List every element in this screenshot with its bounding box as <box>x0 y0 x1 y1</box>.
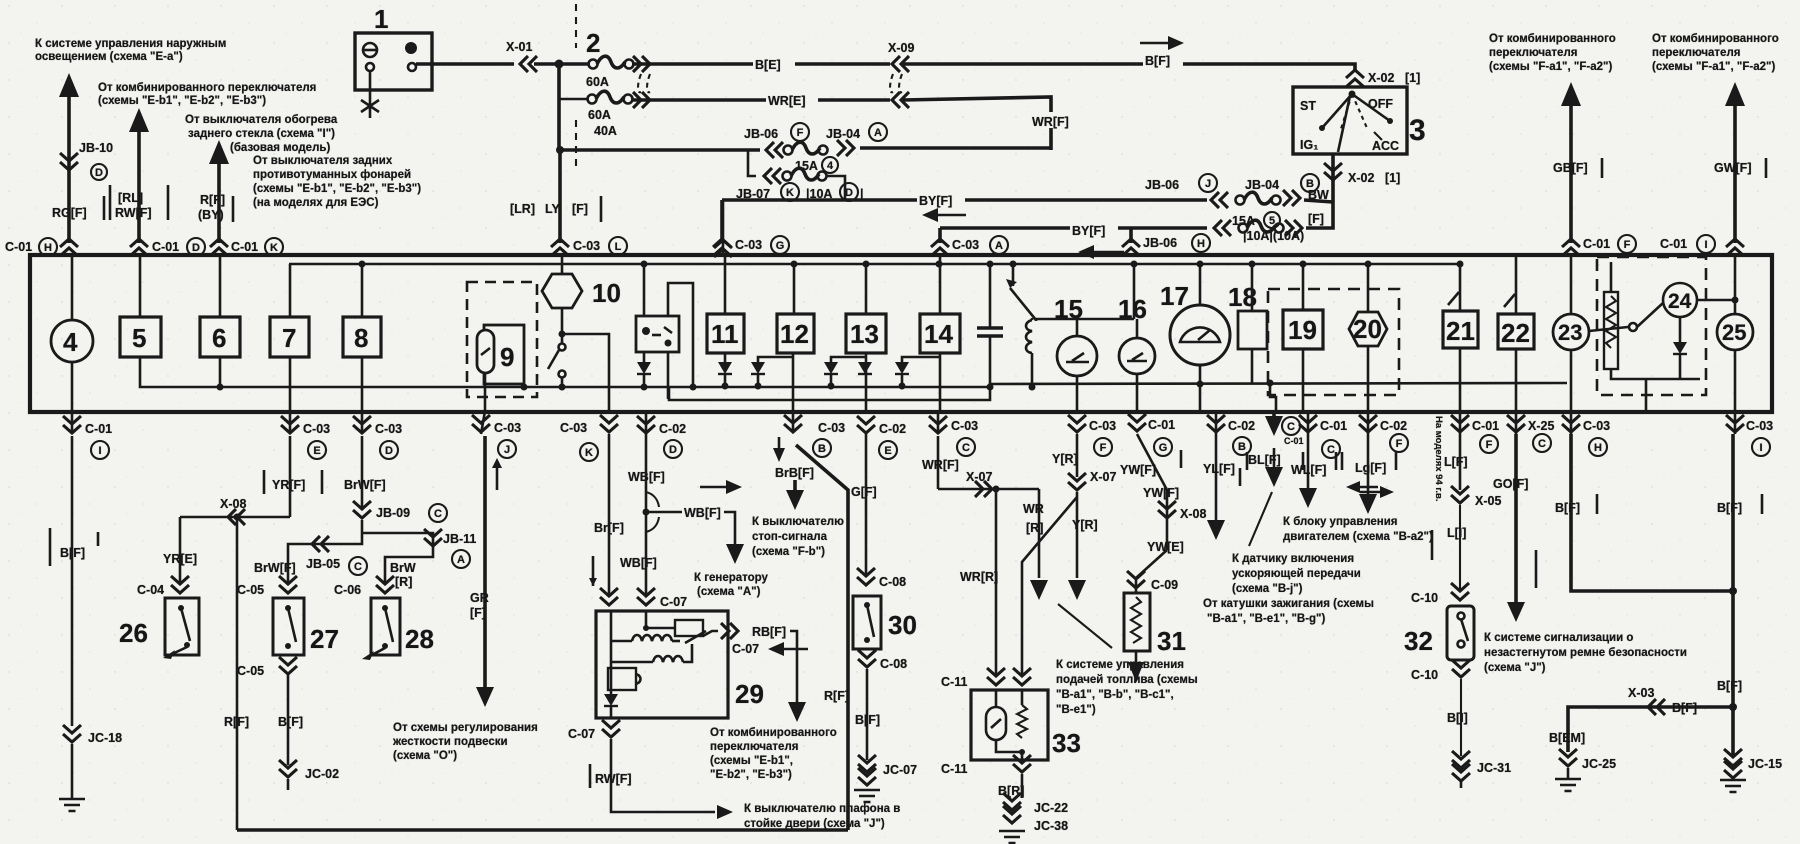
svg-text:C-01: C-01 <box>152 240 179 254</box>
svg-text:10: 10 <box>592 278 621 308</box>
svg-text:I: I <box>1704 239 1707 251</box>
svg-text:К системе управления наружным: К системе управления наружным <box>35 38 226 50</box>
svg-text:X-03: X-03 <box>1628 686 1654 700</box>
svg-text:G: G <box>1159 442 1168 454</box>
ground JC-15 <box>1720 780 1746 792</box>
diagnostic unit 10 hexagon <box>561 257 564 274</box>
lamp 25 <box>1734 257 1737 314</box>
wire drop to C-03 A <box>938 228 942 243</box>
svg-text:JC-02: JC-02 <box>305 767 339 781</box>
svg-text:От комбинированного: От комбинированного <box>1652 33 1779 45</box>
svg-text:C-10: C-10 <box>1411 591 1438 605</box>
svg-text:40A: 40A <box>594 124 617 138</box>
svg-text:JB-09: JB-09 <box>376 506 410 520</box>
svg-text:К датчику включения: К датчику включения <box>1232 553 1354 565</box>
svg-text:X-08: X-08 <box>220 497 246 511</box>
svg-text:C-05: C-05 <box>237 664 264 678</box>
svg-text:От комбинированного переключат: От комбинированного переключателя <box>98 82 316 94</box>
svg-text:BrW[F]: BrW[F] <box>344 478 386 492</box>
svg-text:C: C <box>1287 421 1295 433</box>
connector C-07 bottom of 29 <box>602 720 620 737</box>
svg-text:C: C <box>962 442 970 454</box>
inner top bus <box>289 263 1460 266</box>
svg-text:K: K <box>270 242 278 254</box>
svg-text:RW[F]: RW[F] <box>595 772 632 786</box>
wire R[F] diagonal <box>796 445 848 830</box>
wire WR[E] <box>631 98 890 102</box>
unit 22 <box>1515 257 1518 314</box>
connector JC-15 <box>1724 749 1742 766</box>
svg-text:WR[F]: WR[F] <box>922 458 959 472</box>
svg-text:BW: BW <box>1308 188 1329 202</box>
wire BrW[F] <box>361 436 364 509</box>
wire BW[F] ignition feed <box>1331 155 1335 202</box>
page fold dashes <box>575 4 577 166</box>
wire WR[R] arrow to fuel system <box>1038 489 1041 578</box>
svg-text:[LR]: [LR] <box>510 202 535 216</box>
svg-text:C-11: C-11 <box>941 762 967 776</box>
svg-text:JB-06: JB-06 <box>1143 236 1177 250</box>
frame box <box>30 255 1772 412</box>
connector C-05 top <box>279 576 297 593</box>
svg-text:B[F]: B[F] <box>1672 701 1697 715</box>
svg-text:От катушки зажигания (схемы: От катушки зажигания (схемы <box>1203 598 1374 610</box>
svg-text:C-01: C-01 <box>1320 419 1347 433</box>
unit 5 <box>139 257 142 317</box>
svg-text:C-07: C-07 <box>660 595 687 609</box>
connector C-01 C bottom <box>1307 411 1310 434</box>
svg-text:31: 31 <box>1157 626 1186 656</box>
svg-text:[R]: [R] <box>395 575 412 589</box>
svg-text:JB-04: JB-04 <box>826 127 860 141</box>
wire YW[F] slant <box>1137 434 1167 550</box>
second lower bus <box>669 387 990 400</box>
svg-text:переключателя: переключателя <box>1652 47 1740 59</box>
svg-text:30: 30 <box>888 610 917 640</box>
lamp 23 <box>1570 257 1573 314</box>
svg-text:C-02: C-02 <box>659 422 686 436</box>
svg-text:D: D <box>669 444 677 456</box>
svg-text:E: E <box>884 445 891 457</box>
svg-text:6: 6 <box>212 323 226 353</box>
svg-text:WR[E]: WR[E] <box>768 94 806 108</box>
relay unit 29 <box>596 611 728 718</box>
connector C-01 F at frame top <box>1562 239 1580 256</box>
svg-text:"B-a1", "B-e1", "B-g"): "B-a1", "B-e1", "B-g") <box>1207 613 1326 625</box>
node battery feed junction <box>555 60 564 69</box>
svg-text:B[F]: B[F] <box>278 715 303 729</box>
svg-text:C-01: C-01 <box>1148 418 1175 432</box>
svg-text:C-03: C-03 <box>573 239 600 253</box>
connector C-01 K at frame top <box>210 239 228 256</box>
wire RW[F] <box>610 739 613 790</box>
svg-text:R[F]: R[F] <box>224 715 249 729</box>
svg-text:JC-38: JC-38 <box>1034 819 1068 833</box>
annotation: to overdrive engage sensor <box>1249 492 1272 546</box>
connectors C-11 into 33 <box>987 668 1005 685</box>
unit 12 <box>793 264 796 314</box>
svg-text:15A: 15A <box>795 159 818 173</box>
node LY riser junction <box>556 146 564 154</box>
svg-text:"B-e1"): "B-e1") <box>1056 704 1096 716</box>
connector C-01 F bottom <box>1459 411 1462 434</box>
fuse capsule in 9 <box>477 330 494 373</box>
svg-text:C-03: C-03 <box>952 238 979 252</box>
svg-text:От схемы регулирования: От схемы регулирования <box>393 722 538 734</box>
svg-text:ST: ST <box>1300 99 1316 113</box>
svg-text:C-03: C-03 <box>1583 419 1610 433</box>
svg-text:16: 16 <box>1118 294 1147 324</box>
wire GW[F] arrow up <box>1725 82 1745 106</box>
connector X-02 [1] below ignition <box>1324 163 1342 180</box>
svg-text:JB-11: JB-11 <box>443 532 476 546</box>
wire WR[F] <box>937 436 940 489</box>
svg-text:переключателя: переключателя <box>1489 47 1577 59</box>
svg-text:19: 19 <box>1288 315 1317 345</box>
svg-text:(базовая модель): (базовая модель) <box>230 142 330 154</box>
svg-text:Lg[F]: Lg[F] <box>1355 461 1386 475</box>
unit 8 <box>361 264 364 317</box>
svg-text:[F]: [F] <box>572 202 588 216</box>
wire B[F] to JC-02 <box>287 675 290 765</box>
svg-text:B[I]: B[I] <box>1447 711 1468 725</box>
connector C-03 L at frame top <box>551 239 569 256</box>
wire B[F] to JC-18 <box>71 436 74 726</box>
switch 27 <box>273 598 304 655</box>
svg-text:двигателем (схема "B-a2"): двигателем (схема "B-a2") <box>1283 531 1433 543</box>
svg-text:К выключателю плафона в: К выключателю плафона в <box>744 803 900 815</box>
svg-text:[R]: [R] <box>1026 521 1043 535</box>
svg-text:C-06: C-06 <box>334 583 361 597</box>
svg-text:незастегнутом ремне безопаснос: незастегнутом ремне безопасности <box>1484 647 1687 659</box>
svg-text:C-02: C-02 <box>1228 419 1255 433</box>
lamp 4 <box>71 257 74 320</box>
connector C-06 top <box>376 576 394 593</box>
wire BY[F] line to ignition <box>722 198 1207 202</box>
wire L[F] <box>1459 434 1462 490</box>
fuse unit 9 dashed box <box>467 282 537 397</box>
svg-text:L[I]: L[I] <box>1447 526 1466 540</box>
svg-text:B[E]: B[E] <box>755 58 781 72</box>
svg-text:BY[F]: BY[F] <box>919 194 952 208</box>
wire RW[F] arrow up <box>129 108 149 132</box>
svg-text:17: 17 <box>1160 281 1189 311</box>
svg-text:жесткости подвески: жесткости подвески <box>392 736 508 748</box>
svg-text:60A: 60A <box>586 75 609 89</box>
wire to door lamp switch <box>611 790 715 812</box>
connector C-03 G at frame top <box>713 239 731 256</box>
svg-text:[RL]: [RL] <box>118 191 143 205</box>
svg-text:A: A <box>457 554 465 566</box>
svg-text:заднего стекла (схема "I"): заднего стекла (схема "I") <box>188 128 335 140</box>
svg-text:(схемы "E-b1",: (схемы "E-b1", <box>710 755 793 767</box>
unit 11 <box>722 200 725 255</box>
wire RG[F] arrow up, node E-a <box>59 73 79 97</box>
wire GB[F] arrow up <box>1561 82 1581 106</box>
svg-text:JB-05: JB-05 <box>306 557 340 571</box>
connector arrow BL wire <box>1272 411 1276 420</box>
svg-text:D: D <box>385 445 393 457</box>
connector C-01 H at frame top <box>60 239 78 256</box>
svg-text:C-01: C-01 <box>1472 419 1499 433</box>
switch 28 <box>371 598 400 655</box>
wire B[I] to JC-31 <box>1460 679 1462 756</box>
unit 20 hexagon <box>1367 264 1370 312</box>
connector C-01 G bottom <box>1128 414 1146 431</box>
svg-text:C-03: C-03 <box>818 421 845 435</box>
connector C-03 C bottom <box>937 411 940 434</box>
wire BY[F] second line <box>940 226 1207 230</box>
svg-text:C-03: C-03 <box>1089 419 1116 433</box>
svg-text:На моделях 94 г.в.: На моделях 94 г.в. <box>1433 416 1444 502</box>
wire B[F] to ignition switch <box>903 64 1355 70</box>
connector C-03 I bottom <box>1734 411 1737 434</box>
svg-text:3: 3 <box>1409 114 1426 147</box>
wire GO[F] arrow <box>1514 434 1518 603</box>
connector C-04 <box>171 576 189 593</box>
svg-text:B: B <box>818 443 826 455</box>
svg-text:C-01: C-01 <box>1284 436 1304 446</box>
connector C-02 E bottom <box>857 416 875 433</box>
wire R[F](BY) arrow up <box>209 140 229 164</box>
BL tap from lower bus <box>1267 380 1274 387</box>
svg-text:F: F <box>1486 439 1493 451</box>
svg-text:K: K <box>786 187 794 199</box>
svg-text:J: J <box>504 444 510 456</box>
diode branch left of 13 <box>831 357 866 362</box>
svg-text:C-04: C-04 <box>137 583 164 597</box>
svg-text:C-03: C-03 <box>303 422 330 436</box>
svg-text:C-01: C-01 <box>1583 237 1610 251</box>
svg-text:К блоку управления: К блоку управления <box>1283 516 1398 528</box>
wire WR[F] <box>903 97 1051 150</box>
dashed box 24 <box>1597 257 1706 395</box>
connector C-03 F bottom <box>1068 415 1086 432</box>
svg-text:C-11: C-11 <box>941 675 967 689</box>
wire GR[F] <box>483 436 487 688</box>
svg-text:B[EM]: B[EM] <box>1549 731 1585 745</box>
svg-text:BrW: BrW <box>390 561 416 575</box>
svg-text:WL[F]: WL[F] <box>1291 463 1326 477</box>
fuse on second BY line <box>1214 220 1231 236</box>
direction arrow right on B[F] <box>1140 42 1172 45</box>
diode on wire 13 <box>858 362 872 374</box>
fuse 10A JB-07 row <box>764 168 781 184</box>
diode under 11 <box>724 353 727 362</box>
wire fuse feed row <box>559 148 760 152</box>
wire split to 27 <box>288 520 362 584</box>
svg-text:YR[F]: YR[F] <box>272 478 305 492</box>
connector X-08 on YR <box>180 516 290 519</box>
svg-text:[F]: [F] <box>470 606 486 620</box>
switch 30 <box>853 596 881 649</box>
svg-text:A: A <box>995 240 1003 252</box>
connector C-02 D bottom <box>645 411 648 434</box>
connectors C-07 into relay 29 <box>600 588 618 605</box>
fuse 15A(5) on BY line <box>1211 192 1228 208</box>
svg-text:JC-15: JC-15 <box>1748 757 1782 771</box>
svg-text:YW[F]: YW[F] <box>1120 463 1156 477</box>
svg-text:К генератору: К генератору <box>694 572 769 584</box>
svg-text:D: D <box>845 187 853 199</box>
connector C-10 top <box>1451 583 1469 600</box>
svg-text:переключателя: переключателя <box>710 741 798 753</box>
diode branch left of 12 <box>758 357 793 362</box>
svg-text:(схемы "F-a1", "F-a2"): (схемы "F-a1", "F-a2") <box>1652 61 1775 73</box>
svg-text:YR[E]: YR[E] <box>163 552 197 566</box>
svg-text:GB[F]: GB[F] <box>1553 161 1588 175</box>
connector JC-25 <box>1559 749 1577 766</box>
svg-text:C-05: C-05 <box>237 583 264 597</box>
capacitor <box>989 264 992 328</box>
connector JB-09 C <box>353 501 371 518</box>
connector C-08 bottom <box>858 650 876 667</box>
wire B[R] to JC-22/38 <box>1021 774 1024 798</box>
connector X-02 [1] above ignition <box>1346 70 1364 87</box>
ground under JC-18 <box>59 799 85 811</box>
svg-text:11: 11 <box>711 319 739 349</box>
unit 7 <box>289 264 292 317</box>
svg-text:JB-04: JB-04 <box>1245 178 1279 192</box>
svg-text:7: 7 <box>282 323 296 353</box>
svg-text:F: F <box>1396 438 1403 450</box>
wire battery to X-01 <box>416 62 514 66</box>
svg-text:BrW[F]: BrW[F] <box>254 561 296 575</box>
svg-text:B[F]: B[F] <box>1717 501 1742 515</box>
svg-text:32: 32 <box>1404 626 1433 656</box>
svg-text:D: D <box>192 242 200 254</box>
direction arrow left <box>922 208 938 222</box>
connector C-03 B bottom <box>792 411 795 430</box>
svg-text:C-03: C-03 <box>375 422 402 436</box>
svg-text:22: 22 <box>1501 318 1530 348</box>
svg-text:противотуманных фонарей: противотуманных фонарей <box>253 169 411 181</box>
svg-text:E: E <box>313 445 320 457</box>
svg-text:освещением (схема "E-a"): освещением (схема "E-a") <box>35 51 183 63</box>
svg-text:C-07: C-07 <box>568 727 595 741</box>
svg-text:(схемы "E-b1", "E-b2", "E-b3"): (схемы "E-b1", "E-b2", "E-b3") <box>98 95 266 107</box>
node R[F] junction on X-08 line <box>234 514 241 521</box>
svg-text:(BY): (BY) <box>198 208 224 222</box>
connector C-11 bottom <box>1013 755 1031 772</box>
svg-text:WB[F]: WB[F] <box>620 556 657 570</box>
svg-text:14: 14 <box>924 319 953 349</box>
regulator coil with arrow <box>1012 264 1015 286</box>
svg-text:(схемы "E-b1", "E-b2", "E-b3"): (схемы "E-b1", "E-b2", "E-b3") <box>253 183 421 195</box>
svg-text:JC-07: JC-07 <box>883 763 917 777</box>
diode in 24 <box>1679 317 1682 342</box>
connector C-03 K bottom <box>600 415 618 432</box>
svg-text:От комбинированного: От комбинированного <box>710 727 837 739</box>
svg-text:RG[F]: RG[F] <box>52 206 87 220</box>
svg-text:C-03: C-03 <box>951 419 978 433</box>
svg-text:Br[F]: Br[F] <box>594 521 624 535</box>
svg-text:BrB[F]: BrB[F] <box>775 466 814 480</box>
switch 32 <box>1447 606 1474 660</box>
connector C-03 D bottom <box>361 411 364 434</box>
connector C-01 I at frame top <box>1726 239 1744 256</box>
diode in 29 <box>604 694 618 706</box>
unit 33 <box>971 690 1048 760</box>
svg-text:C: C <box>1327 444 1335 456</box>
svg-text:YL[F]: YL[F] <box>1203 462 1235 476</box>
svg-text:JC-25: JC-25 <box>1582 757 1616 771</box>
svg-text:(схема "F-b"): (схема "F-b") <box>752 546 825 558</box>
svg-text:X-02: X-02 <box>1348 171 1374 185</box>
svg-text:JB-10: JB-10 <box>79 141 113 155</box>
svg-text:12: 12 <box>780 319 809 349</box>
svg-text:GR: GR <box>470 591 489 605</box>
wire LY[F] riser to frame <box>558 150 562 243</box>
svg-text:20: 20 <box>1353 314 1382 344</box>
svg-text:C-01: C-01 <box>5 240 32 254</box>
svg-text:G: G <box>776 240 785 252</box>
svg-text:WR[F]: WR[F] <box>1032 115 1069 129</box>
connector C-03 J bottom <box>481 411 485 434</box>
svg-text:5: 5 <box>132 323 146 353</box>
wire drop to JB-06 H <box>1129 228 1133 243</box>
relay contact in 24 <box>1589 327 1628 331</box>
wire YR[F] <box>289 436 292 517</box>
svg-text:C-02: C-02 <box>1380 419 1407 433</box>
svg-text:25: 25 <box>1722 320 1746 345</box>
svg-text:(схема "B-j"): (схема "B-j") <box>1232 583 1303 595</box>
svg-text:K: K <box>585 447 593 459</box>
svg-text:К выключателю: К выключателю <box>752 516 844 528</box>
diode branch left of 14 <box>902 357 940 362</box>
wire Y[R] diagonal to 33 <box>1022 497 1077 676</box>
svg-text:C: C <box>1538 438 1546 450</box>
svg-text:X-01: X-01 <box>506 40 532 54</box>
svg-text:C-07: C-07 <box>732 642 759 656</box>
svg-text:(схема "J"): (схема "J") <box>1484 662 1546 674</box>
svg-text:F: F <box>1624 239 1631 251</box>
svg-text:JC-18: JC-18 <box>88 731 122 745</box>
wire WL[F] arrow <box>1307 434 1310 490</box>
relay contact 1 <box>685 631 706 643</box>
svg-text:GW[F]: GW[F] <box>1714 161 1751 175</box>
unit 13 <box>865 264 868 314</box>
svg-text:IG₁: IG₁ <box>1300 138 1318 152</box>
wire B[F] to JC-07 <box>866 669 869 760</box>
svg-text:I: I <box>1759 442 1762 454</box>
wire branch to C-03 K <box>562 334 609 411</box>
staircase wire to lower bus <box>668 283 693 386</box>
svg-text:F: F <box>1100 442 1107 454</box>
relay coil 1 <box>632 635 672 641</box>
unit 19 <box>1302 264 1305 310</box>
svg-text:H: H <box>1197 238 1205 250</box>
wire bottom long run <box>237 828 848 832</box>
connector C-02 F bottom <box>1367 411 1370 434</box>
wire Y[R] <box>1076 434 1079 477</box>
svg-text:G[F]: G[F] <box>851 485 877 499</box>
svg-text:28: 28 <box>405 624 434 654</box>
lamp 24 <box>1663 283 1697 317</box>
svg-text:A: A <box>874 127 882 139</box>
svg-text:D: D <box>95 167 103 179</box>
svg-text:От выключателя обогрева: От выключателя обогрева <box>185 114 338 126</box>
svg-text:стоп-сигнала: стоп-сигнала <box>752 531 828 543</box>
svg-text:C-09: C-09 <box>1151 578 1178 592</box>
svg-text:К системе сигнализации о: К системе сигнализации о <box>1484 632 1633 644</box>
svg-text:B: B <box>1238 441 1246 453</box>
arrow from 31 to fuel text <box>1135 651 1138 664</box>
svg-text:60A: 60A <box>588 108 611 122</box>
svg-text:[1]: [1] <box>1385 171 1400 185</box>
ignition switch 3 <box>1293 87 1407 154</box>
svg-text:C-03: C-03 <box>1746 419 1773 433</box>
